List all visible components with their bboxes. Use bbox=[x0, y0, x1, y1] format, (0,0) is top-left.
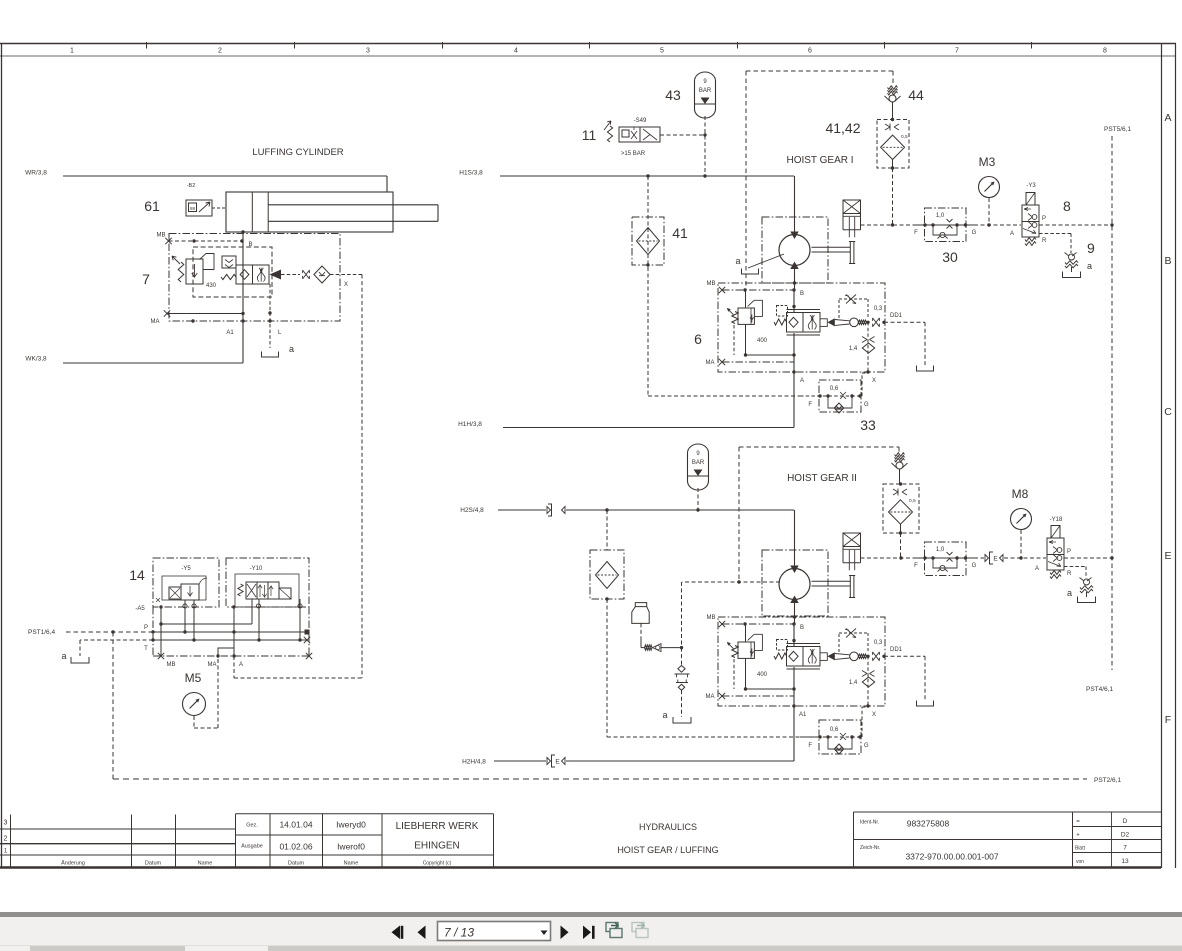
svg-text:M3: M3 bbox=[979, 155, 996, 169]
wire main vertical II bbox=[793, 624, 795, 647]
air bleed valve 33 bbox=[895, 453, 905, 457]
check valve insert bbox=[222, 256, 236, 268]
svg-text:8: 8 bbox=[1063, 198, 1071, 214]
svg-text:=: = bbox=[1076, 819, 1080, 825]
svg-text:A: A bbox=[800, 378, 804, 384]
page number box bbox=[438, 922, 551, 941]
hoist gear II pilot box bbox=[739, 446, 899, 448]
svg-text:>15 BAR: >15 BAR bbox=[621, 151, 646, 157]
previous page button bbox=[418, 926, 426, 940]
wire to connector E bbox=[974, 557, 984, 559]
svg-text:X: X bbox=[344, 282, 348, 288]
svg-text:BAR: BAR bbox=[692, 460, 705, 466]
pilot riser to valve 14 bbox=[361, 275, 363, 679]
brake cylinder I bbox=[843, 200, 861, 214]
svg-text:7: 7 bbox=[1123, 845, 1127, 852]
svg-text:43: 43 bbox=[665, 87, 681, 103]
svg-text:33: 33 bbox=[860, 417, 876, 433]
toolbar separator band bbox=[0, 912, 1182, 917]
svg-text:D: D bbox=[1123, 818, 1128, 825]
svg-text:3: 3 bbox=[366, 48, 370, 55]
counterbalance valve I bbox=[774, 319, 787, 325]
svg-text:MB: MB bbox=[707, 281, 716, 287]
svg-text:F: F bbox=[808, 402, 812, 408]
svg-text:P: P bbox=[1042, 216, 1046, 222]
valve Y10 body bbox=[235, 574, 299, 607]
last page button bbox=[583, 926, 591, 940]
ruler tick bbox=[294, 42, 296, 49]
svg-text:H2S/4,8: H2S/4,8 bbox=[460, 507, 484, 514]
next view icon (disabled) bbox=[632, 923, 648, 938]
ruler tick bbox=[442, 42, 444, 49]
wire cylinder port B bbox=[242, 232, 244, 363]
svg-text:-B2: -B2 bbox=[187, 183, 196, 189]
svg-text:a: a bbox=[735, 256, 740, 266]
svg-text:41,42: 41,42 bbox=[825, 120, 860, 136]
revision table row lines bbox=[0, 828, 236, 830]
svg-text:Gez.: Gez. bbox=[246, 823, 258, 829]
hoist gear I pilot box bbox=[746, 70, 893, 72]
svg-text:G: G bbox=[972, 563, 977, 569]
svg-text:Name: Name bbox=[344, 861, 359, 867]
svg-text:5: 5 bbox=[660, 48, 664, 55]
filter 33 bbox=[883, 484, 919, 533]
svg-text:Name: Name bbox=[198, 861, 213, 867]
svg-text:E: E bbox=[1164, 550, 1171, 562]
ruler tick bbox=[1031, 42, 1033, 49]
svg-text:MA: MA bbox=[706, 360, 715, 366]
svg-text:HOIST GEAR II: HOIST GEAR II bbox=[787, 473, 857, 484]
svg-text:Copyright (c): Copyright (c) bbox=[423, 861, 452, 867]
valve 14 internal rails bbox=[161, 623, 252, 625]
svg-text:MA: MA bbox=[151, 319, 160, 325]
svg-text:0,5: 0,5 bbox=[909, 498, 916, 504]
svg-text:P: P bbox=[1067, 549, 1071, 555]
svg-text:DD1: DD1 bbox=[890, 647, 903, 653]
svg-text:F: F bbox=[914, 230, 918, 236]
svg-text:0,3: 0,3 bbox=[874, 306, 883, 312]
wire brake pilot I bbox=[861, 224, 917, 226]
wire valve14 A to riser bbox=[233, 656, 235, 678]
tank a at T bbox=[80, 639, 153, 641]
pilot loop 0,3 II bbox=[838, 633, 840, 652]
svg-text:F: F bbox=[1165, 714, 1171, 726]
relief valve 430 bbox=[178, 262, 184, 282]
brake cylinder II bbox=[843, 533, 861, 547]
accumulator 43b bbox=[688, 444, 709, 490]
ruler tick bbox=[737, 42, 739, 49]
svg-text:Iwerof0: Iwerof0 bbox=[337, 842, 365, 852]
svg-text:7: 7 bbox=[955, 48, 959, 55]
wire brake pilot II bbox=[861, 557, 917, 559]
svg-text:9: 9 bbox=[1087, 240, 1095, 256]
wire motor II outlet bbox=[790, 596, 798, 604]
svg-text:0,3: 0,3 bbox=[874, 640, 883, 646]
svg-text:-S49: -S49 bbox=[634, 118, 647, 124]
motor II enclosure bbox=[762, 550, 828, 616]
svg-text:HYDRAULICS: HYDRAULICS bbox=[639, 822, 697, 832]
wire connector to valve bbox=[1004, 557, 1046, 559]
svg-text:41: 41 bbox=[672, 225, 688, 241]
svg-text:H1S/3,8: H1S/3,8 bbox=[459, 170, 483, 177]
luffing cylinder rod bbox=[268, 204, 438, 206]
svg-text:G: G bbox=[972, 230, 977, 236]
wire filter 41 leg bbox=[647, 176, 649, 396]
svg-text:-Y5: -Y5 bbox=[181, 566, 191, 572]
wire flushing leg bbox=[681, 582, 683, 648]
wire motor I inlet bbox=[794, 176, 796, 234]
svg-text:-Y18: -Y18 bbox=[1050, 517, 1063, 523]
svg-text:MB: MB bbox=[167, 662, 176, 668]
wire 30 to valve 8 bbox=[974, 224, 1021, 226]
svg-text:PST5/6,1: PST5/6,1 bbox=[1104, 126, 1131, 133]
previous view icon bbox=[606, 923, 622, 938]
svg-text:8: 8 bbox=[1103, 48, 1107, 55]
drain line L bbox=[269, 284, 271, 348]
svg-text:Iweryd0: Iweryd0 bbox=[336, 820, 366, 830]
relief insert bbox=[681, 648, 683, 665]
wire PST2/6,1 bus bbox=[113, 778, 1087, 780]
svg-text:H1H/3,8: H1H/3,8 bbox=[458, 421, 482, 428]
svg-text:H2H/4,8: H2H/4,8 bbox=[462, 759, 486, 766]
counterbalance valve body bbox=[236, 265, 269, 284]
svg-text:88: 88 bbox=[190, 206, 196, 211]
svg-text:PST4/6,1: PST4/6,1 bbox=[1086, 686, 1113, 693]
svg-text:3372-970.00.00.001-007: 3372-970.00.00.001-007 bbox=[905, 852, 998, 862]
svg-text:G: G bbox=[864, 743, 869, 749]
svg-text:4: 4 bbox=[514, 48, 518, 55]
svg-text:61: 61 bbox=[144, 198, 160, 214]
svg-text:6: 6 bbox=[808, 48, 812, 55]
svg-text:LUFFING CYLINDER: LUFFING CYLINDER bbox=[252, 147, 343, 158]
svg-text:R: R bbox=[1042, 238, 1047, 244]
svg-text:430: 430 bbox=[206, 283, 217, 289]
svg-text:A: A bbox=[239, 662, 243, 668]
motor II shaft bbox=[812, 580, 851, 582]
svg-text:M5: M5 bbox=[185, 671, 202, 685]
svg-text:14: 14 bbox=[129, 567, 145, 583]
ruler tick bbox=[884, 42, 886, 49]
svg-text:-A5: -A5 bbox=[135, 606, 145, 612]
drawing frame ruler bottom line bbox=[0, 55, 1176, 57]
tank a flushing bbox=[673, 717, 691, 723]
svg-text:P: P bbox=[144, 625, 148, 631]
ruler tick bbox=[146, 42, 148, 49]
svg-text:M8: M8 bbox=[1012, 487, 1029, 501]
svg-text:X: X bbox=[872, 712, 876, 718]
pilot loop 0,3 I bbox=[838, 299, 840, 318]
relief valve 400 I bbox=[745, 290, 747, 308]
orifice block 0,6 I bbox=[819, 380, 861, 412]
svg-text:DD1: DD1 bbox=[890, 313, 903, 319]
svg-text:G: G bbox=[864, 402, 869, 408]
svg-text:11: 11 bbox=[582, 127, 597, 143]
svg-text:T: T bbox=[144, 646, 148, 652]
svg-text:HOIST GEAR I: HOIST GEAR I bbox=[786, 155, 853, 166]
svg-text:a: a bbox=[1067, 588, 1072, 598]
svg-text:MA: MA bbox=[706, 694, 715, 700]
svg-text:BAR: BAR bbox=[699, 88, 712, 94]
svg-text:A: A bbox=[1035, 566, 1039, 572]
next page button bbox=[561, 926, 569, 940]
pilot piston arrow bbox=[270, 270, 282, 280]
svg-text:Ausgabe: Ausgabe bbox=[241, 844, 263, 850]
svg-text:Zeich-Nr.: Zeich-Nr. bbox=[860, 845, 880, 851]
svg-text:HOIST GEAR / LUFFING: HOIST GEAR / LUFFING bbox=[617, 845, 718, 855]
svg-text:400: 400 bbox=[757, 672, 768, 678]
svg-text:3: 3 bbox=[4, 820, 8, 827]
svg-text:13: 13 bbox=[1121, 858, 1129, 865]
flushing throttle bbox=[645, 645, 653, 650]
breather cap bbox=[632, 603, 649, 624]
svg-text:44: 44 bbox=[908, 87, 924, 103]
title block right section bbox=[853, 812, 855, 867]
svg-text:1,0: 1,0 bbox=[936, 213, 945, 219]
svg-text:a: a bbox=[662, 710, 667, 720]
svg-text:-Y10: -Y10 bbox=[250, 566, 263, 572]
svg-text:Datum: Datum bbox=[145, 861, 162, 867]
svg-text:D2: D2 bbox=[1121, 832, 1130, 839]
ruler tick bbox=[589, 42, 591, 49]
ports A1 X II bbox=[792, 704, 795, 707]
valve block 6 II enclosure bbox=[718, 617, 885, 706]
svg-text:1,0: 1,0 bbox=[936, 547, 945, 553]
svg-text:R: R bbox=[1067, 571, 1072, 577]
hydraulic motor I bbox=[779, 235, 810, 266]
wire filter column II bbox=[606, 510, 608, 550]
counterbalance valve II bbox=[774, 653, 787, 659]
svg-text:7: 7 bbox=[142, 271, 150, 287]
svg-text:EHINGEN: EHINGEN bbox=[414, 841, 460, 852]
valve Y5 enclosure bbox=[153, 558, 219, 607]
svg-text:7 / 13: 7 / 13 bbox=[444, 926, 474, 940]
svg-text:983275808: 983275808 bbox=[907, 819, 950, 829]
svg-text:MB: MB bbox=[157, 233, 166, 239]
luffing cylinder barrel bbox=[226, 192, 393, 232]
title block top line bbox=[236, 813, 494, 815]
title block bottom heavy line bbox=[0, 866, 1161, 868]
svg-text:Blatt: Blatt bbox=[1075, 846, 1086, 852]
svg-text:0,5: 0,5 bbox=[901, 134, 908, 140]
motor I case drain a bbox=[748, 254, 784, 268]
frame right inner vertical line bbox=[1161, 44, 1163, 869]
svg-text:A1: A1 bbox=[226, 330, 234, 336]
svg-text:A: A bbox=[1010, 231, 1014, 237]
svg-text:1,4: 1,4 bbox=[849, 680, 858, 686]
pilot line X bbox=[281, 274, 300, 276]
svg-text:+: + bbox=[1076, 833, 1080, 839]
svg-text:2: 2 bbox=[4, 836, 8, 843]
svg-text:F: F bbox=[808, 743, 812, 749]
filter 45 bbox=[590, 550, 624, 599]
svg-text:Datum: Datum bbox=[288, 861, 305, 867]
svg-text:E: E bbox=[555, 759, 560, 766]
svg-text:B: B bbox=[1164, 255, 1171, 267]
wire filter to H2H bbox=[606, 599, 608, 737]
svg-text:WR/3,8: WR/3,8 bbox=[25, 170, 47, 177]
svg-text:PST2/6,1: PST2/6,1 bbox=[1094, 777, 1121, 784]
svg-text:14.01.04: 14.01.04 bbox=[279, 820, 312, 830]
svg-text:Änderung: Änderung bbox=[61, 860, 85, 867]
wire motor I outlet bbox=[790, 262, 798, 270]
svg-text:MA: MA bbox=[208, 662, 217, 668]
wire motor II inlet bbox=[794, 510, 796, 568]
motor I shaft bbox=[812, 246, 851, 248]
wire valve 8 to PST5 bbox=[1039, 224, 1112, 226]
toolbar background bbox=[0, 917, 1182, 945]
svg-text:400: 400 bbox=[757, 338, 768, 344]
svg-text:B: B bbox=[800, 625, 804, 631]
valve Y10 enclosure bbox=[226, 558, 309, 607]
motor I enclosure bbox=[762, 217, 828, 283]
svg-text:2: 2 bbox=[218, 48, 222, 55]
svg-text:F: F bbox=[914, 563, 918, 569]
svg-text:PST1/6,4: PST1/6,4 bbox=[28, 629, 55, 636]
wire valve Y18 to PST5 bbox=[1064, 557, 1112, 559]
wire motor II drain bbox=[682, 581, 780, 583]
svg-text:-Y3: -Y3 bbox=[1026, 183, 1036, 189]
orifice block 0,6 II bbox=[819, 720, 861, 754]
left frame edge line bbox=[1, 44, 3, 867]
wire main vertical I bbox=[793, 290, 795, 313]
status bar strip bbox=[0, 945, 1182, 951]
svg-text:a: a bbox=[61, 651, 66, 661]
title block column lines bbox=[10, 815, 12, 868]
orifice block 1,0 II bbox=[925, 542, 967, 576]
svg-text:01.02.06: 01.02.06 bbox=[279, 842, 312, 852]
svg-text:E: E bbox=[993, 556, 998, 563]
svg-text:WK/3,8: WK/3,8 bbox=[25, 356, 47, 363]
svg-text:B: B bbox=[800, 291, 804, 297]
valve Y5 body bbox=[162, 576, 206, 600]
drawing frame top border line bbox=[0, 43, 1176, 45]
svg-text:30: 30 bbox=[942, 249, 958, 265]
relief valve 400 II bbox=[745, 624, 747, 642]
svg-text:0,6: 0,6 bbox=[830, 386, 839, 392]
svg-text:von: von bbox=[1076, 859, 1084, 865]
hydraulic motor II bbox=[779, 569, 810, 600]
svg-text:0,6: 0,6 bbox=[830, 727, 839, 733]
svg-text:1,4: 1,4 bbox=[849, 346, 858, 352]
wire PST riser bbox=[112, 632, 114, 779]
ports A X I bbox=[792, 370, 795, 373]
pilot dashed box bbox=[193, 247, 272, 297]
frame right outer vertical line bbox=[1175, 44, 1177, 869]
svg-text:X: X bbox=[872, 378, 876, 384]
connector E bbox=[985, 555, 989, 562]
svg-text:Ident-Nr.: Ident-Nr. bbox=[860, 820, 879, 826]
first page button bbox=[392, 926, 401, 940]
svg-text:A: A bbox=[1164, 112, 1171, 124]
svg-text:a: a bbox=[1087, 261, 1092, 271]
svg-text:A1: A1 bbox=[799, 712, 807, 718]
svg-text:6: 6 bbox=[694, 331, 702, 347]
svg-text:a: a bbox=[289, 344, 294, 354]
svg-text:MB: MB bbox=[707, 615, 716, 621]
valve 14 bottom rail bbox=[152, 607, 154, 656]
svg-text:1: 1 bbox=[70, 48, 74, 55]
svg-text:C: C bbox=[1164, 406, 1172, 418]
svg-text:LIEBHERR WERK: LIEBHERR WERK bbox=[396, 821, 479, 832]
